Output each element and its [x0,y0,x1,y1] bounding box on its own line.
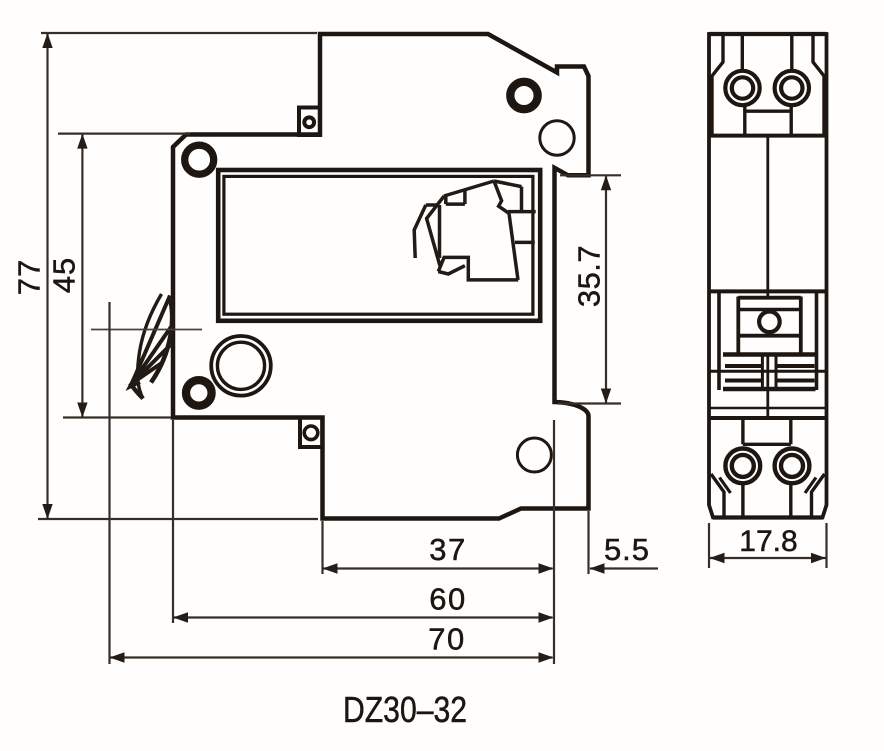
mounting hole top-right (thick ring) [510,82,537,109]
front view body outline [173,34,589,519]
channel left vertical [761,356,764,389]
mechanism bottom step [438,257,518,280]
svg-text:77: 77 [12,259,47,295]
mechanism right edge [509,213,518,280]
arrow 45 top [77,134,87,149]
pivot centerline [91,329,202,331]
mechanism ear top [508,210,536,214]
mechanism parallelogram right vertical [463,191,467,204]
toggle lever [91,294,202,399]
bottom left extra diagonal [720,478,731,494]
mechanism left whisker [414,205,426,258]
middle block top edge [709,289,827,293]
bottom below-circle left vertical [741,483,744,516]
stripes bottom thick [723,387,816,391]
upper mounting ear square [299,108,320,136]
lever fan line 4 [132,362,163,384]
arrow 37 right [539,563,554,573]
ext line x=322.5 for dim 37 [321,521,323,574]
lever fan line 1 [132,296,170,384]
arrow 17.8 right [811,553,826,563]
dim 17.8 line [710,557,826,559]
thin hole top-right [540,121,574,155]
control window outer rectangle [218,170,540,321]
dim 77 extension bottom [38,518,318,520]
lever fan line 2 [132,326,172,384]
mechanism long upper diagonal [444,181,494,196]
dim 5.5 right extension x=588.5 [587,511,589,574]
top terminal circle right outer [775,71,809,105]
stripe row1 left [725,364,762,368]
bottom block slot right vertical [789,418,792,444]
dim 77 line [46,34,48,518]
mechanism crossing diagonal [427,196,445,266]
dim 70 left extension [108,302,110,664]
svg-text:17.8: 17.8 [739,525,797,558]
svg-text:60: 60 [429,582,466,617]
top block right inner wall [813,35,824,135]
lever tail thick [130,383,143,399]
dim 5.5 tail line [590,567,658,569]
dim 45 line [81,135,83,417]
top block mouth horizontal [745,109,791,112]
dim 70 line [111,656,553,658]
bottom terminal circle left inner [732,455,754,477]
mechanism beak [438,266,465,274]
lever knob arc (thick) [151,297,172,383]
arrow 77 bottom [42,504,52,519]
bottom terminal circle left outer [725,449,760,484]
bottom block slot left vertical [741,418,744,444]
top block mouth left vertical [743,105,746,136]
middle block left inner wall [717,291,721,390]
arrow 60 right [539,612,554,622]
arrow 60 left [173,612,188,622]
shared right extension x=554 [553,420,555,664]
arrow 70 right [539,652,554,662]
top screw slot left [741,35,744,71]
svg-text:45: 45 [47,257,82,293]
trip mechanism inside window [414,181,536,280]
mechanism pole vertical [520,187,524,212]
arrow 45 bottom [77,403,87,418]
mechanism peak zigzag [494,181,509,213]
small thick ring left of double circle [186,380,212,406]
svg-text:37: 37 [429,532,466,567]
control window inner rectangle [224,176,533,314]
lower ear hole [304,426,318,440]
dim 35.7 line [605,176,607,402]
double circle lower-left outer [211,336,271,396]
bottom left inner wall with chamfer [711,474,724,517]
dim 60 left extension [172,420,174,623]
dim 17.8 right extension [825,523,827,568]
mechanism long left vertical [438,205,442,258]
inner box right vertical [799,297,803,354]
mechanism parallelogram bottom [446,202,465,206]
inner box bottom line [738,334,801,338]
top block mouth right vertical [790,105,793,136]
dim 45 extension bottom [63,416,171,418]
inner box top line [738,296,801,300]
lower thin horizontal [709,407,827,410]
lever swing arc (thin) [138,294,162,399]
arrow 70 left [110,652,125,662]
bottom terminal circle right outer [775,449,810,484]
mechanism peak right diagonal [494,181,522,187]
bottom block slot horizontal [743,443,791,446]
bottom right inner wall with chamfer [812,474,825,517]
svg-text:5.5: 5.5 [604,532,650,567]
thin hole bottom-right [517,438,551,472]
dim 17.8 left extension [708,523,710,568]
arrow 35.7 bottom [601,389,611,404]
middle block right inner wall [815,291,819,390]
dim 37 line [324,567,553,569]
stripe row2 left [725,379,762,383]
wide line below box [723,352,816,356]
svg-text:DZ30–32: DZ30–32 [343,689,467,730]
side view bottom edge [713,515,823,519]
arrow 35.7 top [601,175,611,190]
top terminal circle right inner [781,77,802,98]
dim 35.7 extension bottom [558,402,621,404]
lever arrowhead [126,376,142,392]
stripe row1 right [776,364,815,368]
center divider line lower [766,354,769,418]
svg-text:35.7: 35.7 [572,245,607,307]
mechanism parallelogram left vertical [444,196,448,205]
full width stripe [709,370,827,373]
svg-text:70: 70 [428,622,465,657]
dim 60 line [174,616,553,618]
mechanism ear bottom [515,241,535,245]
middle small circle [759,312,780,333]
mechanism left horizontal stub [426,203,439,207]
side view top edge thick [709,32,827,36]
inner box second line [738,308,801,311]
stripe row2 right [776,379,815,383]
dim 45 extension top [58,133,190,135]
side view outer outline [709,34,827,518]
channel right vertical [775,356,778,389]
arrow 5.5 left-pointing [590,563,605,573]
lever fan line 3 [132,345,171,384]
double circle lower-left inner [217,342,264,389]
top terminal block bottom edge [709,134,827,138]
lower mounting ear square [300,418,322,448]
center divider line upper [766,136,769,298]
top terminal circle left outer [725,71,759,105]
upper ear hole [304,117,314,127]
bottom terminal circle right inner [781,455,803,477]
bottom right extra diagonal [805,478,816,494]
dim 77 extension top [41,32,317,34]
arrow 17.8 left [710,553,725,563]
bottom block top edge [709,416,827,420]
bottom below-circle right vertical [789,483,792,516]
top screw slot right [790,35,793,71]
arrow 77 top [42,33,52,48]
arrow 37 left [323,563,338,573]
dim 35.7 extension top [560,174,621,176]
mounting hole top-left (thick ring) [185,145,214,174]
top terminal circle left inner [732,77,753,98]
inner box left vertical [736,297,740,354]
top block left inner wall [712,35,723,135]
